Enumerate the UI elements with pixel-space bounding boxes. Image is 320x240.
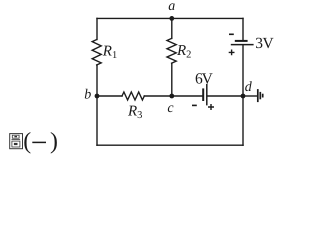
node c junction dot (169, 94, 174, 99)
wire right edge upper (to battery 3V) (242, 18, 244, 40)
battery 3V plate long (positive) (231, 44, 254, 46)
battery 6V plate short (negative) (202, 88, 204, 101)
node d junction dot (241, 94, 246, 99)
svg-text:a: a (168, 0, 175, 14)
wire middle branch b to R3 (97, 95, 122, 97)
node a junction dot (169, 16, 174, 21)
svg-text:d: d (245, 80, 253, 95)
battery 3V plate short (negative) (235, 40, 248, 42)
svg-text:3V: 3V (255, 35, 274, 52)
battery 6V plate long (positive) (206, 84, 208, 106)
battery 3V plus sign (229, 50, 235, 56)
wire middle branch R3 through c to battery 6V (144, 95, 202, 97)
node b junction dot (95, 94, 100, 99)
wire left edge upper (to R1) (96, 18, 98, 39)
ground (258, 89, 263, 102)
wire bottom (97, 144, 243, 146)
battery 6V plus sign (208, 104, 214, 110)
wire left edge lower (R1 to b to bottom corner) (96, 65, 98, 145)
wire R2 branch lower (R2 to c) (171, 63, 173, 96)
wire middle branch battery 6V to d (207, 95, 243, 97)
figure caption glyph 圖 (10, 134, 23, 149)
wire R2 branch upper (a to R2) (171, 18, 173, 38)
wire top (a across) (97, 17, 243, 19)
svg-text:c: c (167, 101, 174, 116)
svg-text:6V: 6V (195, 70, 214, 87)
svg-text:): ) (50, 128, 58, 154)
resistor R1 (92, 40, 101, 66)
resistor R3 (122, 92, 144, 100)
wire ground stub from d (243, 95, 257, 97)
wire right edge lower (battery 3V to d to bottom corner) (242, 45, 244, 145)
battery 6V minus sign (192, 104, 197, 106)
svg-text:b: b (84, 88, 91, 103)
resistor R2 (167, 38, 176, 63)
battery 3V minus sign (229, 33, 234, 35)
svg-text:(: ( (23, 128, 31, 154)
